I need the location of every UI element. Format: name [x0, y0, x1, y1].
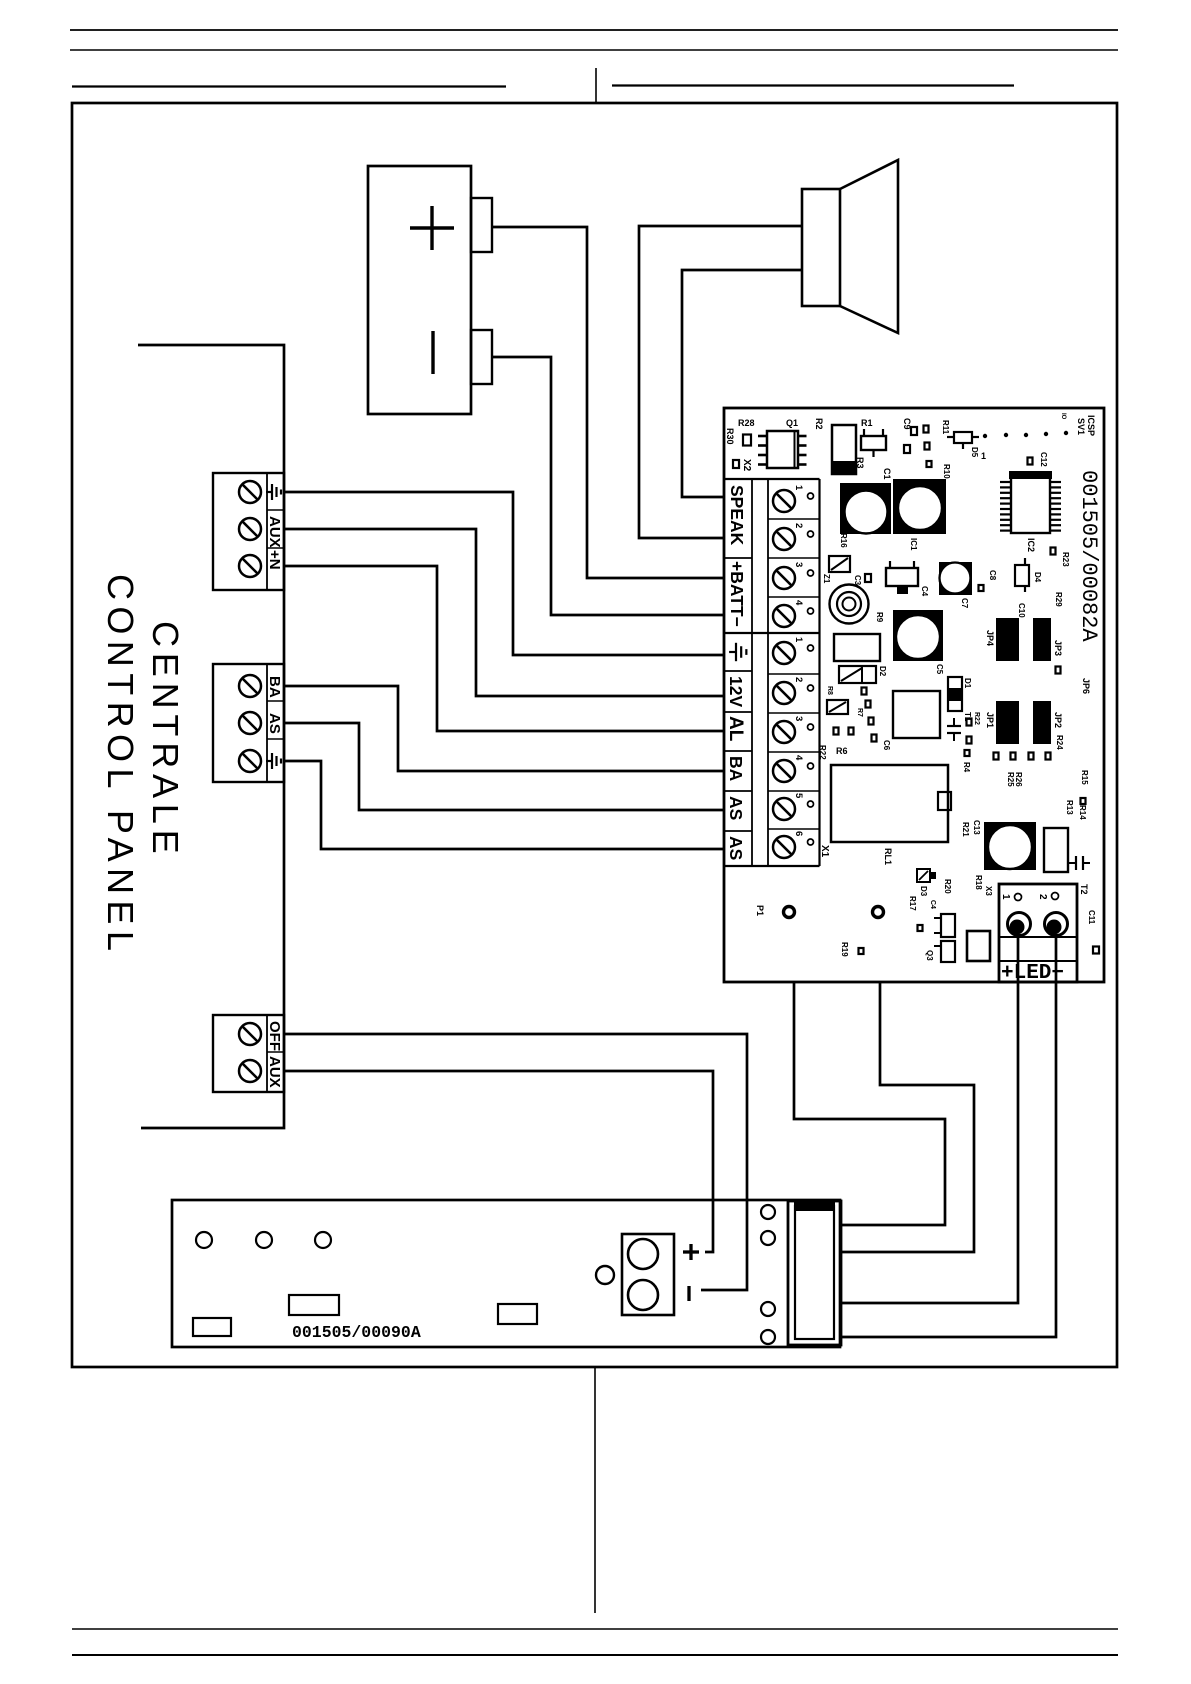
svg-text:R26: R26 — [1014, 772, 1023, 787]
svg-text:2: 2 — [1037, 894, 1048, 900]
wire speaker terminal B to SPEAK 1 — [682, 270, 802, 497]
svg-text:JP4: JP4 — [985, 630, 995, 646]
wire LED minus to J2 pin 4 — [842, 937, 1056, 1337]
svg-text:R11: R11 — [941, 420, 950, 435]
svg-text:JP6: JP6 — [1081, 678, 1091, 694]
test point P1 right — [873, 907, 884, 918]
svg-text:R18: R18 — [974, 875, 983, 890]
terminal block TB2 screw 3 — [239, 750, 261, 772]
X1 screw terminal pin 5 — [773, 793, 814, 820]
jumper JP4 block — [996, 618, 1019, 661]
svg-text:C5: C5 — [935, 664, 944, 675]
svg-text:C13: C13 — [972, 820, 981, 835]
terminal block TB1 body — [213, 473, 284, 590]
svg-text:D5: D5 — [970, 447, 979, 458]
X2 screw terminal pin 2 — [773, 523, 814, 550]
wire TB2 BA to PCB BA — [284, 686, 725, 771]
header underline right segment — [612, 84, 1014, 86]
svg-text:2: 2 — [793, 523, 804, 528]
svg-text:Q1: Q1 — [786, 418, 798, 428]
X2 screw terminal pin 4 — [773, 600, 814, 627]
svg-text:C11: C11 — [1087, 910, 1096, 925]
transistor C4 body — [886, 561, 918, 594]
svg-text:R6: R6 — [836, 746, 848, 756]
power minus sign — [687, 1286, 690, 1301]
pad below R11 — [927, 461, 932, 467]
svg-text:AUX: AUX — [266, 1056, 283, 1088]
svg-text:P1: P1 — [755, 905, 765, 916]
X1 screw terminal pin 6 — [773, 831, 814, 858]
svg-text:R28: R28 — [738, 418, 755, 428]
power connector J1 pin 2 — [628, 1280, 658, 1310]
terminal block TB2 cell borders — [267, 701, 284, 739]
wire PCB to J2 pin 2 — [842, 982, 974, 1252]
svg-text:R1: R1 — [861, 418, 873, 428]
terminal block TB3 body — [213, 1015, 284, 1092]
title block top rule 1 — [70, 29, 1118, 31]
svg-text:C7: C7 — [960, 598, 969, 609]
diode R8 body — [827, 700, 848, 714]
svg-text:X1: X1 — [819, 845, 830, 858]
microcontroller IC2 — [1000, 471, 1061, 533]
svg-text:+LED−: +LED− — [1001, 962, 1064, 985]
svg-text:6: 6 — [793, 831, 804, 836]
resistor R2 body — [832, 425, 856, 474]
capacitor C14 body — [967, 931, 990, 961]
J2 pad 1 — [761, 1205, 775, 1219]
svg-text:ICSP: ICSP — [1086, 415, 1096, 436]
power connector J1 pin 1 — [628, 1239, 658, 1269]
terminal block TB1 screw 3 — [239, 555, 261, 577]
svg-text:JP2: JP2 — [1053, 712, 1063, 728]
capacitor symbol below D1 — [947, 718, 961, 741]
svg-text:12V: 12V — [726, 676, 746, 707]
svg-text:1: 1 — [793, 637, 804, 643]
mounting hole H3 — [315, 1232, 331, 1248]
battery BT1 plus sign — [410, 206, 454, 250]
bottom rule 1 — [72, 1628, 1118, 1630]
svg-text:R29: R29 — [1054, 592, 1063, 607]
X1 label cell borders — [725, 671, 752, 831]
J2 pad 4 — [761, 1330, 775, 1344]
svg-text:R17: R17 — [908, 896, 917, 911]
pad R19 — [859, 948, 864, 954]
svg-text:R7: R7 — [856, 708, 863, 717]
pad R4 — [965, 750, 970, 756]
svg-text:C4: C4 — [929, 900, 936, 909]
terminal block TB2 body — [213, 664, 284, 782]
wire TB2 earth to PCB AS — [284, 761, 725, 849]
svg-text:C1: C1 — [882, 468, 892, 480]
header underline left segment — [72, 85, 506, 87]
svg-text:BA: BA — [726, 756, 746, 782]
TB1 earth symbol label — [266, 484, 281, 500]
speaker LS1 driver body — [802, 189, 840, 306]
drawing frame border — [72, 103, 1117, 1367]
terminal block TB1 cell borders — [267, 510, 284, 548]
capacitor C2 body — [893, 479, 946, 534]
wire TB3 OFF to power minus — [284, 1034, 747, 1290]
svg-text:IO: IO — [1060, 413, 1066, 420]
terminal block TB2 screw 2 — [239, 712, 261, 734]
output terminal J2 outer body — [788, 1201, 841, 1345]
transformer T1 body — [893, 691, 940, 738]
battery BT1 body — [368, 166, 471, 414]
pad left of R11 upper — [924, 426, 929, 433]
svg-text:AUX: AUX — [266, 516, 283, 548]
svg-text:1: 1 — [1000, 894, 1011, 900]
pads right of T1 — [967, 719, 972, 744]
pads middle cluster — [834, 688, 877, 742]
svg-text:CENTRALE: CENTRALE — [145, 621, 186, 859]
svg-text:IC1: IC1 — [909, 538, 918, 551]
svg-text:T2: T2 — [1079, 884, 1089, 895]
svg-text:BA: BA — [266, 676, 283, 698]
pads below jumpers — [994, 753, 1051, 760]
output terminal J2 top bar — [794, 1202, 835, 1211]
component outline F2 — [289, 1295, 339, 1315]
transistor Q3 body — [934, 941, 955, 962]
wire TB1 +N to PCB AL — [284, 566, 725, 731]
op-amp IC Q1 — [758, 431, 807, 468]
pad R17 — [918, 925, 923, 931]
terminal block TB3 screw 1 — [239, 1023, 261, 1045]
pad near R28 — [743, 435, 751, 446]
svg-text:+BATT−: +BATT− — [727, 561, 747, 627]
svg-text:C6: C6 — [882, 740, 891, 751]
X2 screw terminal pin 1 — [773, 485, 814, 512]
main PCB board outline — [724, 408, 1104, 982]
svg-text:AS: AS — [726, 796, 746, 820]
svg-text:JP3: JP3 — [1053, 640, 1063, 656]
svg-text:4: 4 — [793, 600, 804, 606]
diode D2 body — [839, 666, 876, 683]
svg-text:D3: D3 — [919, 886, 928, 897]
svg-text:3: 3 — [793, 562, 804, 567]
terminal block TB3 screw 2 — [239, 1060, 261, 1082]
svg-text:R19: R19 — [840, 942, 849, 957]
svg-text:OFF: OFF — [266, 1021, 283, 1051]
capacitor symbol right edge — [1069, 856, 1090, 870]
terminal block TB2 label divider — [266, 664, 268, 782]
X2 screw terminal pin 3 — [773, 562, 814, 589]
mounting hole H4 — [596, 1266, 614, 1284]
svg-text:3: 3 — [793, 716, 804, 721]
resistor R13 body — [1044, 828, 1068, 872]
svg-text:SV1: SV1 — [1076, 418, 1086, 435]
LED connector pin 1 marker — [1000, 894, 1022, 901]
transistor Q4 body — [934, 914, 955, 937]
svg-text:001505/00082A: 001505/00082A — [1076, 470, 1101, 642]
terminal block TB3 label divider — [266, 1015, 268, 1092]
svg-text:C10: C10 — [1017, 603, 1026, 618]
svg-text:R4: R4 — [962, 762, 971, 773]
pad R15 — [1081, 798, 1086, 804]
svg-text:Z1: Z1 — [822, 574, 831, 584]
svg-text:Q3: Q3 — [925, 950, 934, 961]
capacitor C13 body — [984, 822, 1036, 870]
X1 earth symbol — [729, 643, 746, 661]
relay RL1 body — [831, 765, 951, 842]
LED connector pin 2 socket — [1045, 913, 1068, 936]
pad C3 — [865, 574, 871, 582]
LED connector X3 body — [999, 884, 1077, 982]
terminal block TB1 screw 1 — [239, 481, 261, 503]
svg-text:X2: X2 — [741, 459, 752, 472]
jumper JP3 block — [1033, 618, 1051, 661]
wire LED plus to J2 pin 3 — [842, 937, 1018, 1303]
terminal block TB3 cell border — [267, 1051, 284, 1053]
output terminal J2 inner body — [795, 1206, 834, 1339]
svg-text:R10: R10 — [942, 464, 951, 479]
svg-text:R21: R21 — [961, 822, 970, 837]
X1 screw terminal pin 1 — [773, 637, 814, 664]
capacitor C5 body — [893, 610, 943, 661]
svg-text:X3: X3 — [984, 886, 993, 896]
resistor R11 body — [947, 432, 979, 449]
svg-text:D1: D1 — [963, 678, 972, 689]
speaker LS1 horn cone — [840, 160, 898, 333]
wire TB3 AUX to power plus — [284, 1071, 713, 1252]
header center tick — [595, 68, 597, 103]
svg-text:CONTROL PANEL: CONTROL PANEL — [100, 574, 141, 957]
LED connector pin 1 socket — [1008, 913, 1031, 936]
svg-text:IC2: IC2 — [1026, 538, 1036, 552]
component outline F3 — [498, 1304, 537, 1324]
component outline F1 — [193, 1318, 231, 1336]
terminal block TB2 screw 1 — [239, 675, 261, 697]
svg-text:R30: R30 — [725, 428, 735, 445]
lower center divider line — [594, 1368, 596, 1613]
mounting hole H1 — [196, 1232, 212, 1248]
capacitor C1 body — [840, 483, 891, 534]
X1 screw terminal pin 4 — [773, 755, 814, 782]
transistor D4 body — [1015, 558, 1029, 592]
svg-text:2: 2 — [793, 677, 804, 682]
svg-text:R16: R16 — [839, 533, 848, 548]
pad near C9 upper — [911, 427, 917, 435]
bottom rule 2 — [72, 1654, 1118, 1656]
svg-text:1: 1 — [793, 485, 804, 491]
pad right of JP3 — [1056, 667, 1061, 674]
test point P1 left — [784, 907, 795, 918]
svg-text:1: 1 — [981, 451, 986, 461]
svg-text:AL: AL — [725, 716, 746, 742]
svg-text:R22: R22 — [973, 712, 980, 725]
power supply board outline — [172, 1200, 840, 1347]
power plus sign — [683, 1244, 699, 1260]
battery BT1 positive terminal tab — [471, 198, 492, 252]
svg-text:R22: R22 — [818, 745, 827, 760]
wire TB2 AS to PCB AS — [284, 723, 725, 810]
diode D7 body — [861, 429, 886, 457]
pad near C9 lower — [904, 445, 910, 453]
wire speaker terminal A to SPEAK 2 — [639, 226, 802, 538]
svg-text:D4: D4 — [1033, 572, 1042, 583]
mounting hole H2 — [256, 1232, 272, 1248]
resistor R9 body — [834, 634, 880, 661]
svg-text:R20: R20 — [943, 879, 952, 894]
svg-text:R25: R25 — [1006, 772, 1015, 787]
pad near X2 label — [733, 460, 739, 468]
power connector J1 body — [622, 1234, 674, 1315]
wire TB1 AUX to PCB 12V — [284, 529, 725, 696]
X1 screw terminal pin 2 — [773, 677, 814, 704]
J2 pad 3 — [761, 1302, 775, 1316]
svg-text:C4: C4 — [920, 586, 929, 597]
battery BT1 negative terminal tab — [471, 330, 492, 384]
J2 pad 2 — [761, 1231, 775, 1245]
pad left of R11 lower — [925, 443, 930, 450]
pad R23 — [1051, 548, 1056, 555]
svg-text:RL1: RL1 — [883, 848, 893, 865]
buzzer rings — [830, 585, 869, 624]
svg-text:C8: C8 — [988, 570, 997, 581]
svg-text:R2: R2 — [814, 418, 824, 430]
jumper JP1 block — [996, 701, 1019, 744]
svg-text:D2: D2 — [878, 666, 887, 677]
jumper JP2 block — [1033, 701, 1051, 744]
svg-text:C12: C12 — [1039, 452, 1048, 467]
svg-text:R9: R9 — [875, 612, 884, 623]
pad C8 — [979, 585, 984, 591]
svg-text:R14: R14 — [1078, 805, 1087, 820]
svg-text:JP1: JP1 — [985, 712, 995, 728]
pad C11 — [1093, 947, 1099, 954]
wire PCB P1 area to J2 pin 1 — [794, 982, 945, 1225]
svg-text:R8: R8 — [826, 686, 833, 695]
svg-text:R24: R24 — [1055, 735, 1064, 750]
svg-text:+N: +N — [266, 550, 283, 570]
terminal block TB1 label divider — [266, 473, 268, 590]
diode Z1 body — [829, 556, 850, 572]
LED connector pin 2 marker — [1037, 893, 1059, 901]
X1 screw terminal pin 3 — [773, 716, 814, 743]
X1 screw cell borders — [768, 674, 820, 829]
wire TB1 earth to PCB earth — [284, 492, 725, 655]
svg-text:AS: AS — [266, 713, 283, 734]
svg-text:001505/00090A: 001505/00090A — [292, 1323, 421, 1342]
ICSP pad dots — [983, 431, 1068, 438]
svg-text:4: 4 — [793, 755, 804, 761]
title block top rule 2 — [70, 49, 1118, 51]
svg-text:AS: AS — [726, 836, 746, 860]
terminal strip X2/X1 outline — [725, 479, 820, 866]
diode D3 body — [917, 869, 936, 882]
X2 screw cell borders — [768, 519, 820, 597]
wire battery minus to BAT- terminal — [492, 357, 725, 615]
pad C12 — [1028, 458, 1033, 465]
svg-text:R3: R3 — [855, 457, 865, 469]
X2 label cell border — [725, 557, 752, 559]
svg-text:R23: R23 — [1061, 552, 1070, 567]
svg-text:R15: R15 — [1080, 770, 1089, 785]
svg-text:R13: R13 — [1065, 800, 1074, 815]
svg-text:5: 5 — [793, 793, 804, 799]
control panel enclosure outline — [138, 345, 284, 1128]
TB2 earth symbol label — [266, 753, 281, 769]
capacitor C7 body — [939, 562, 972, 595]
svg-text:SPEAK: SPEAK — [727, 485, 747, 546]
wire battery plus to +BAT terminal — [492, 227, 725, 578]
diode D1 body — [948, 677, 962, 711]
terminal block TB1 screw 2 — [239, 518, 261, 540]
battery BT1 minus sign — [431, 331, 434, 374]
